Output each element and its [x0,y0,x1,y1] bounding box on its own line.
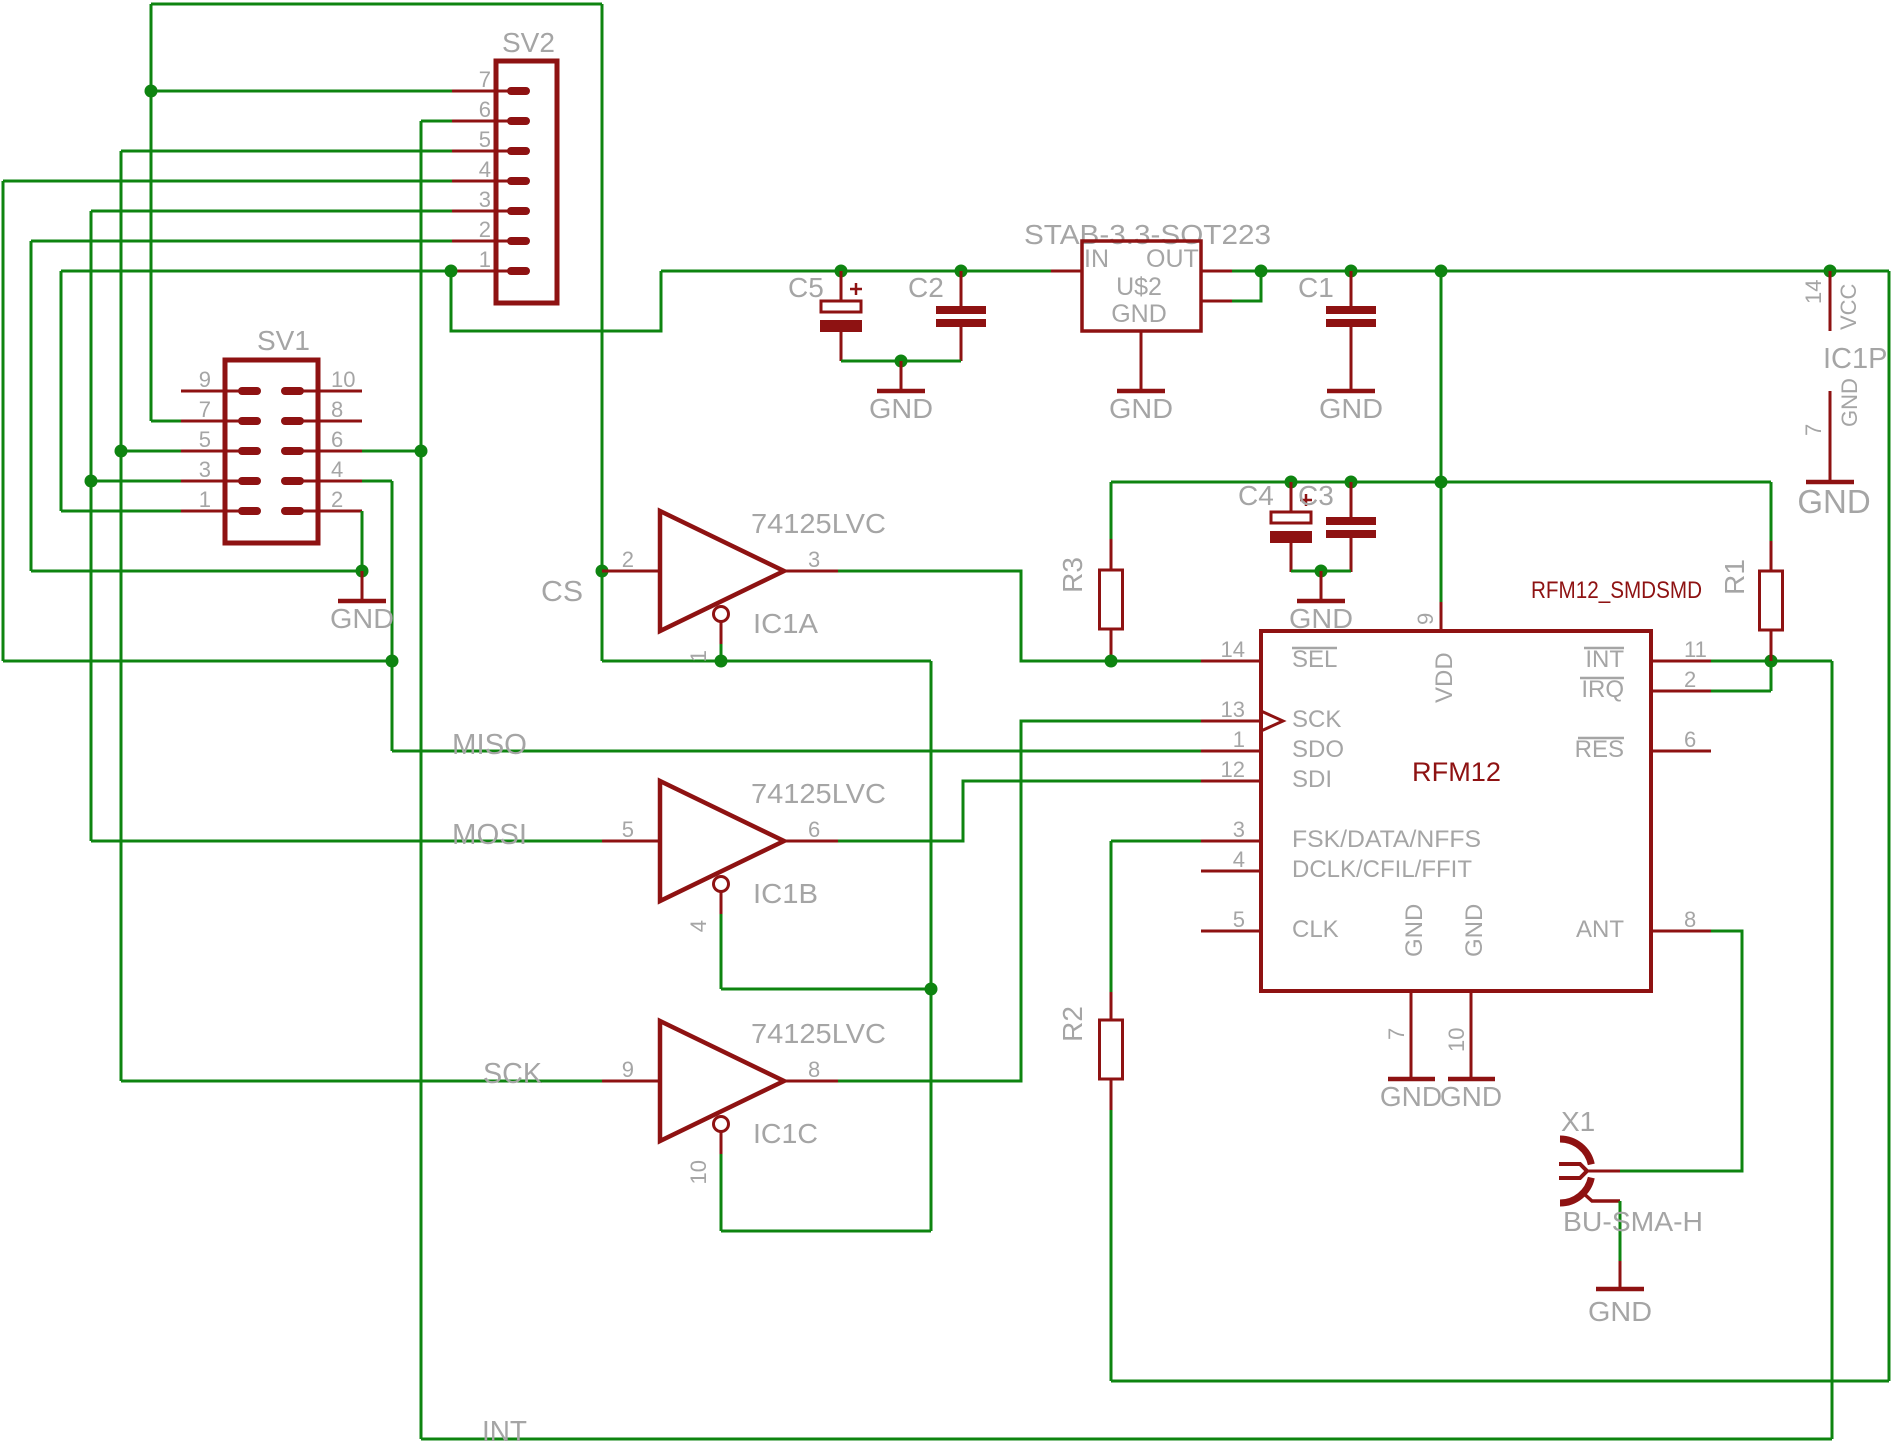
svg-text:MISO: MISO [452,729,527,761]
junction node GND of C4 C3 [1315,565,1328,578]
pad pin 10 of SV1 [281,387,304,395]
svg-text:GND: GND [1440,1081,1502,1112]
polarized capacitor C4 [1270,482,1312,572]
svg-text:R2: R2 [1057,1006,1088,1042]
pin 3 FSK/DATA/NFFS of RFM12 [1201,840,1261,843]
capacitor C1 [1326,271,1376,361]
svg-text:R1: R1 [1719,559,1750,595]
svg-text:6: 6 [479,97,491,122]
svg-text:GND: GND [1837,378,1862,427]
wire net VCC jog under SV2 [451,271,661,331]
svg-text:IC1A: IC1A [753,608,818,639]
ground GND of C4 C3 [1297,571,1345,601]
svg-text:INT: INT [482,1416,527,1442]
pad pin 1 of SV2 [507,267,530,275]
pad pin 1 of SV1 [238,507,261,515]
overline of INT [1584,647,1624,650]
pin 5 CLK of RFM12 [1201,930,1261,933]
svg-text:INT: INT [1585,646,1624,673]
wire net VDD to R3 [1110,482,1113,539]
overline of IRQ [1580,677,1624,680]
center pin of X1 [1587,1170,1620,1173]
svg-text:R3: R3 [1057,557,1088,593]
wire net GND left riser [30,241,33,571]
ground GND of C5 C2 [877,361,925,391]
wire net VCC rail [661,270,1051,273]
svg-text:C3: C3 [1298,480,1334,511]
svg-text:7: 7 [199,397,211,422]
svg-text:3: 3 [199,457,211,482]
wire enable chain IC1B lead [720,914,723,989]
wire net VCC33 to R2 [1110,1110,1113,1381]
svg-text:GND: GND [1380,1081,1442,1112]
wire net VDD riser [1440,271,1443,602]
junction node SCK at SV1 pin5 [115,445,128,458]
pin 2 of SV1 [302,510,362,513]
svg-text:1: 1 [1233,727,1245,752]
svg-text:9: 9 [622,1057,634,1082]
svg-text:74125LVC: 74125LVC [751,508,886,539]
svg-text:MOSI: MOSI [452,819,527,851]
resistor R2 [1100,1020,1123,1079]
connector X1 lower arc [1560,1178,1591,1203]
output pin 3 of IC1A [784,570,838,573]
pin 2 IRQ of RFM12 [1651,690,1711,693]
IC RFM12 body [1261,631,1651,991]
capacitor C2 [936,271,986,361]
ground bar of RFM12 pin10 [1448,1077,1495,1082]
pin 5 of SV2 [452,150,510,153]
pin 6 RES of RFM12 [1651,750,1711,753]
svg-text:GND: GND [869,393,933,424]
pad pin 2 of SV2 [507,237,530,245]
svg-text:1: 1 [479,247,491,272]
lead bottom of R3 [1110,629,1113,661]
svg-text:14: 14 [1801,280,1826,304]
svg-text:SDO: SDO [1292,736,1344,763]
svg-text:C4: C4 [1238,480,1274,511]
pin 13 SCK of RFM12 [1201,720,1261,723]
wire net CS right riser [601,4,604,571]
svg-text:4: 4 [331,457,343,482]
svg-text:OUT: OUT [1146,245,1199,273]
svg-text:12: 12 [1221,757,1245,782]
svg-text:8: 8 [331,397,343,422]
pin OUT2 of U$2 [1201,300,1232,303]
wire net SCK left riser [120,151,123,1081]
svg-text:5: 5 [622,817,634,842]
svg-text:2: 2 [331,487,343,512]
connector X1 fork [1559,1164,1587,1178]
wire net MOSI SV1 pin3 [91,480,181,483]
svg-text:U$2: U$2 [1116,273,1162,301]
wire net SCK SV2 pin5 [121,150,452,153]
pad pin 8 of SV1 [281,417,304,425]
pin 6 of SV1 [302,450,362,453]
wire enable chain IC1C lead [720,1154,723,1231]
buffer IC1A 74125LVC [660,511,784,631]
svg-text:IC1C: IC1C [753,1118,818,1149]
wire net X1 shield to GND [1619,1201,1622,1261]
svg-text:SDI: SDI [1292,766,1332,793]
svg-text:9: 9 [199,367,211,392]
plus sign of C5 [850,283,862,295]
svg-text:9: 9 [1413,613,1438,625]
wire enable chain right run [721,660,931,663]
regulator U$2 body [1082,241,1201,331]
svg-text:3: 3 [479,187,491,212]
pad pin 7 of SV1 [238,417,261,425]
svg-text:FSK/DATA/NFFS: FSK/DATA/NFFS [1292,826,1481,853]
wire net VCC33 out2 link [1232,271,1261,301]
svg-text:3: 3 [808,547,820,572]
pin OUT of U$2 [1201,270,1232,273]
pad pin 6 of SV1 [281,447,304,455]
svg-text:CS: CS [541,576,583,608]
wire net GND of C5 C2 [841,360,961,363]
pad pin 6 of SV2 [507,117,530,125]
svg-text:C5: C5 [788,272,824,303]
wire net CS SV2 pin7 [151,90,452,93]
pin 11 INT of RFM12 [1651,660,1711,663]
pin 4 of SV2 [452,180,510,183]
wire net INT SV2 pin6 [421,120,452,123]
junction node enable chain at IC1A [715,655,728,668]
svg-text:GND: GND [1111,300,1167,328]
junction node GND of C5 C2 [895,355,908,368]
wire net VCC left riser [60,271,63,511]
svg-text:SV2: SV2 [502,27,555,58]
shield lead of X1 [1582,1192,1620,1201]
svg-text:IC1P: IC1P [1823,343,1887,375]
pad pin 2 of SV1 [281,507,304,515]
svg-text:3: 3 [1233,817,1245,842]
svg-text:CLK: CLK [1292,916,1339,943]
pin 9 of SV1 [181,390,242,393]
pin 4 DCLK/CFIL/FFIT of RFM12 [1201,870,1261,873]
pad pin 4 of SV1 [281,477,304,485]
wire net SCK main run [121,1080,603,1083]
wire enable chain riser 1 [930,661,933,989]
wire net CS left riser [150,4,153,421]
enable bubble of IC1A [714,607,729,622]
svg-text:5: 5 [199,427,211,452]
wire net FSK riser [1110,841,1113,992]
wire net MISO SV1 pin4 [362,480,392,483]
svg-text:RFM12_SMDSMD: RFM12_SMDSMD [1531,577,1702,604]
svg-text:4: 4 [479,157,491,182]
pin 2 of SV2 [452,240,510,243]
input pin 9 of IC1C [602,1080,660,1083]
pad pin 3 of SV1 [238,477,261,485]
svg-text:RFM12: RFM12 [1412,757,1501,787]
svg-text:14: 14 [1221,637,1245,662]
svg-text:X1: X1 [1561,1106,1595,1137]
svg-text:4: 4 [1233,847,1245,872]
svg-text:GND: GND [1401,904,1428,957]
pin 10 GND of RFM12 [1470,991,1473,1078]
output pin 6 of IC1B [784,840,838,843]
svg-text:GND: GND [1461,904,1488,957]
svg-text:SEL: SEL [1292,646,1337,673]
svg-text:4: 4 [686,920,711,932]
pin 1 of SV1 [181,510,242,513]
pin 3 of SV1 [181,480,242,483]
svg-text:RES: RES [1575,736,1624,763]
wire net VCC33 right riser [1888,271,1891,1381]
pad pin 9 of SV1 [238,387,261,395]
lead top of R2 [1110,992,1113,1020]
svg-text:SCK: SCK [483,1058,543,1090]
enable bubble of IC1C [714,1117,729,1132]
junction node MISO junction [386,655,399,668]
svg-text:7: 7 [1801,424,1826,436]
ground GND of X1 [1596,1261,1644,1289]
wire net GND bottom run [31,570,362,573]
ground GND of C1 [1327,361,1375,391]
pad pin 4 of SV2 [507,177,530,185]
wire net MOSI main run [91,840,602,843]
overline of RES [1578,737,1624,740]
junction node VCC33 at IC1P [1824,265,1837,278]
polarized capacitor C5 [820,271,862,361]
svg-text:74125LVC: 74125LVC [751,1018,886,1049]
svg-text:2: 2 [622,547,634,572]
svg-text:11: 11 [1684,637,1707,662]
wire net VDD rail2 [1111,481,1771,484]
svg-text:1: 1 [686,650,711,662]
junction node enable chain at IC1B [925,983,938,996]
junction node GND junction at SV1 [356,565,369,578]
enable pin 4 of IC1B [720,892,723,914]
buffer IC1C 74125LVC [660,1021,784,1141]
svg-text:GND: GND [330,603,394,634]
wire net INT IRQ vertical [1770,661,1773,691]
lead top of R3 [1110,539,1113,570]
svg-text:SCK: SCK [1292,706,1341,733]
input pin 5 of IC1B [602,840,660,843]
enable pin 10 of IC1C [720,1132,723,1154]
svg-text:10: 10 [686,1160,711,1184]
wire net MISO SV2 pin4 [3,180,452,183]
junction node MOSI at SV1 pin3 [85,475,98,488]
svg-text:2: 2 [1684,667,1696,692]
pin 7 of SV1 [181,420,242,423]
wire net GND SV1 pin2 [361,511,364,571]
wire net SCK SV1 pin5 [121,450,181,453]
buffer IC1B 74125LVC [660,781,784,901]
svg-text:ANT: ANT [1576,916,1624,943]
svg-text:10: 10 [331,367,355,392]
ground bar of IC1P [1806,480,1854,485]
pin 4 of SV1 [302,480,362,483]
wire net GND of C4 C3 [1291,570,1351,573]
svg-text:7: 7 [1384,1028,1409,1040]
connector SV2 body [496,61,557,303]
pin 14 SEL of RFM12 [1201,660,1261,663]
wire net SCKC from IC1C [838,721,1201,1081]
pin 12 SDI of RFM12 [1201,780,1261,783]
wire net FSK run [1111,840,1201,843]
svg-text:10: 10 [1444,1028,1469,1052]
svg-text:IRQ: IRQ [1581,676,1624,703]
resistor R1 [1760,571,1783,630]
wire net INT to junction [1771,660,1832,663]
pin 7 of SV2 [452,90,510,93]
junction node INT at R1 bottom [1765,655,1778,668]
junction node VCC at C2 [955,265,968,278]
junction node VDD at C4 [1285,476,1298,489]
pin 10 of SV1 [302,390,362,393]
wire net CS to enable chain [601,571,604,661]
svg-text:IN: IN [1084,245,1109,273]
svg-text:VDD: VDD [1431,652,1458,703]
enable pin 1 of IC1A [720,622,723,644]
wire enable chain riser 2 [930,989,933,1231]
wire net VCC33 out of regulator [1232,270,1889,273]
wire net INT to pin2 [1711,690,1771,693]
junction node SEL at R3 bottom [1105,655,1118,668]
junction node VCC33 at VDD riser [1435,265,1448,278]
svg-text:GND: GND [1797,483,1870,520]
svg-text:BU-SMA-H: BU-SMA-H [1563,1206,1703,1237]
wire net CS enable run [602,660,721,663]
wire net MOSI SV2 pin3 [91,210,452,213]
connector SV1 body [225,360,318,543]
junction node INT at SV1 pin6 [415,445,428,458]
junction node VDD at C3 [1345,476,1358,489]
pin 7 GND of RFM12 [1410,991,1413,1078]
wire net MISO main run [392,750,1201,753]
svg-text:IC1B: IC1B [753,878,818,909]
ground GND of SV connectors [338,571,386,601]
wire net ANT [1620,931,1742,1171]
pin 8 of SV1 [302,420,362,423]
plus sign of C4 [1300,494,1312,506]
wire net VCC to SV1 pin1 [61,510,181,513]
wire net MISO bottom run [3,660,392,663]
svg-text:GND: GND [1588,1296,1652,1327]
svg-text:13: 13 [1221,697,1245,722]
overline of SEL [1292,647,1337,650]
enable bubble of IC1B [714,877,729,892]
wire enable chain bottom run [721,1230,931,1233]
lead top of R1 [1770,541,1773,571]
wire net CS to SV1 pin7 [151,420,181,423]
pin GND of U$2 [1140,331,1143,360]
wire net VDD to R1 [1770,482,1773,541]
svg-text:DCLK/CFIL/FFIT: DCLK/CFIL/FFIT [1292,856,1472,883]
wire net INT left riser [420,121,423,1439]
clock mark of SCK pin [1261,711,1283,731]
junction node VCC33 at OUT [1255,265,1268,278]
pin 7 GND of IC1P [1829,391,1832,482]
wire net CS top [151,3,602,6]
pin 6 of SV2 [452,120,510,123]
junction node VCC at C5 [835,265,848,278]
svg-text:VCC: VCC [1836,283,1861,330]
junction node CS at SV2 pin 7 [145,85,158,98]
ground GND of U$2 [1117,360,1165,391]
svg-text:5: 5 [1233,907,1245,932]
pin 5 of SV1 [181,450,242,453]
output pin 8 of IC1C [784,1080,838,1083]
svg-text:8: 8 [1684,907,1696,932]
wire net INT SV1 pin6 [362,450,421,453]
svg-text:GND: GND [1319,393,1383,424]
wire net MISO left riser [2,181,5,661]
wire net VCC33 bottom run [1111,1380,1889,1383]
pad pin 5 of SV1 [238,447,261,455]
svg-text:6: 6 [331,427,343,452]
wire net INT bottom run [421,1438,1832,1441]
wire net VCC SV2 pin1 left [61,270,451,273]
resistor R3 [1100,570,1123,629]
svg-text:C2: C2 [908,272,944,303]
pad pin 5 of SV2 [507,147,530,155]
capacitor C3 [1326,482,1376,572]
input pin 2 of IC1A [602,570,660,573]
pad pin 3 of SV2 [507,207,530,215]
svg-text:7: 7 [479,67,491,92]
junction node VCC at SV2 pin1 [445,265,458,278]
svg-text:74125LVC: 74125LVC [751,778,886,809]
junction node CS at IC1A input [596,565,609,578]
wire enable chain IC1A lead [720,644,723,661]
svg-text:5: 5 [479,127,491,152]
svg-text:GND: GND [1109,393,1173,424]
pad pin 7 of SV2 [507,87,530,95]
wire net MOSI left riser [90,211,93,841]
wire net INT to pin11 [1711,660,1771,663]
pin 1 SDO of RFM12 [1201,750,1261,753]
lead bottom of R2 [1110,1079,1113,1110]
svg-text:1: 1 [199,487,211,512]
wire enable chain IC1B run [721,988,931,991]
ground bar of RFM12 pin7 [1388,1077,1435,1082]
wire net GND SV2 pin2 [31,240,452,243]
svg-text:8: 8 [808,1057,820,1082]
junction node VCC33 at C1 [1345,265,1358,278]
svg-text:6: 6 [808,817,820,842]
lead bottom of R1 [1770,630,1773,661]
pin IN of U$2 [1051,270,1082,273]
wire net INT right riser [1831,661,1834,1439]
pin 1 of SV2 [452,270,510,273]
svg-text:SV1: SV1 [257,325,310,356]
wire net SEL from IC1A [838,571,1201,661]
wire net MISO riser [391,481,394,751]
svg-text:C1: C1 [1298,272,1334,303]
svg-text:6: 6 [1684,727,1696,752]
pin 8 ANT of RFM12 [1651,930,1711,933]
pin 14 VCC of IC1P [1829,271,1832,331]
connector X1 upper arc [1560,1139,1591,1164]
svg-text:2: 2 [479,217,491,242]
pin 3 of SV2 [452,210,510,213]
junction node VDD at riser [1435,476,1448,489]
pin 9 VDD of RFM12 [1440,602,1443,631]
wire net SDI from IC1B [838,781,1201,841]
